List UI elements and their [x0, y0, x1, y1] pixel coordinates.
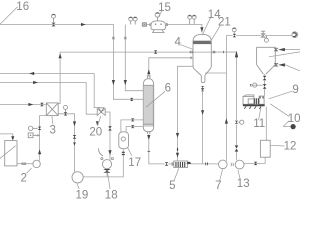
- arrow down on x=113.4: [112, 80, 115, 85]
- wire riser box3 to top line: [58, 52, 236, 104]
- gauge beside riser x236 valve: [240, 120, 244, 124]
- hopper outlet valve 2: [263, 84, 267, 89]
- arrow down on box3 outlet drop x=74.5: [73, 121, 76, 126]
- gauges on pump15 line left: [129, 17, 133, 21]
- svg-text:18: 18: [105, 189, 118, 200]
- pump 15 body: [151, 21, 165, 30]
- svg-text:16: 16: [16, 1, 29, 13]
- wire pump15 line to vessel14: [125, 25, 143, 91]
- leader 10 a: [270, 104, 289, 117]
- svg-text:7: 7: [215, 180, 221, 192]
- hopper feed A valve: [275, 48, 278, 51]
- valve on x=74.5: [73, 135, 77, 139]
- svg-text:9: 9: [292, 84, 298, 96]
- leader 7: [220, 169, 223, 181]
- leader 19: [77, 183, 79, 189]
- coupling box on pump15 line: [142, 23, 146, 27]
- arrow up column6 riser: [147, 69, 150, 74]
- arrow up on riser x=236.5: [235, 51, 238, 58]
- pump 7: [219, 160, 228, 169]
- column 6 shell: [143, 79, 153, 132]
- leader 11: [259, 107, 261, 120]
- wire pump18 bottom to collection line: [106, 173, 108, 177]
- leader 18: [108, 173, 111, 189]
- valves into column left side: [130, 98, 133, 101]
- valve on pump2 riser: [38, 127, 42, 130]
- gauge above pump15: [155, 12, 160, 17]
- pump 18: [102, 160, 111, 169]
- vessel17 bottom flanges: [122, 152, 125, 155]
- small valve on instrument stub: [250, 84, 252, 86]
- pump18 base valve: [103, 169, 111, 173]
- wire box3 right outlet down to pump19: [58, 114, 74, 172]
- arrow down into vessel14 top: [200, 27, 203, 32]
- junction ticks on pump7 suction line: [205, 163, 208, 166]
- svg-text:17: 17: [128, 157, 141, 169]
- control valve on top feed line: [52, 23, 56, 27]
- leader 16: [0, 7, 18, 25]
- gauge top-left control valve: [52, 14, 56, 18]
- machine11 mid hatch: [254, 98, 259, 104]
- svg-text:20: 20: [89, 126, 102, 138]
- flange ticks y52 right of vessel14: [213, 51, 223, 54]
- wire hopper8 feed A: [285, 49, 300, 51]
- small arrow down x=74.5 lower: [73, 142, 76, 145]
- arrow down on valve20 drain: [108, 150, 111, 155]
- svg-text:11: 11: [253, 118, 265, 130]
- valve 20 three-way: [97, 108, 105, 116]
- svg-text:6: 6: [165, 82, 171, 94]
- wire pump10 stub line: [283, 125, 290, 127]
- machine5 dark innards: [175, 162, 185, 167]
- leader 15: [159, 10, 163, 16]
- arrow up main riser x=60: [59, 53, 62, 58]
- machine11 right box marks: [260, 97, 264, 99]
- vessel14 bottom stacked valve: [201, 86, 204, 91]
- leader 8 (label off canvas): [269, 52, 300, 57]
- wire vessel14 lower-left stub down to machine5: [178, 66, 194, 161]
- hopper feed B valve: [275, 64, 278, 67]
- wire vessel17 left nozzle to column: [121, 120, 143, 132]
- leader 17: [128, 148, 132, 156]
- dark details group: [11, 23, 296, 173]
- dashes+arrow above machine5: [177, 148, 178, 151]
- leader 13: [238, 170, 240, 179]
- hopper outlet valve 1: [263, 76, 267, 81]
- wire tank1 feed: [0, 134, 13, 137]
- pump 2: [33, 160, 40, 167]
- svg-text:15: 15: [158, 2, 171, 14]
- arrow down on vessel14 drain: [201, 110, 204, 115]
- wire hopper8 feed B slanted: [285, 65, 300, 71]
- arrow right on y=82.5: [33, 81, 38, 84]
- arrow up pump2 riser: [38, 149, 41, 154]
- wire tank12 top feed from machine11: [265, 107, 267, 141]
- svg-text:13: 13: [237, 178, 250, 190]
- valve on pump10 line x=234: [233, 34, 237, 37]
- valve on riser x236 with gauge: [235, 121, 238, 124]
- leader 1 (cut at left): [0, 146, 16, 159]
- gauge on hopper chain stub: [253, 83, 257, 87]
- svg-text:21: 21: [218, 17, 231, 29]
- column drain flanges: [148, 150, 151, 153]
- wire instrument stub left of hopper chain: [252, 84, 263, 86]
- arrow right on box3 inlet: [28, 103, 33, 106]
- square instrument lower: [28, 133, 33, 138]
- wire machine5 outlet to pump7: [168, 163, 218, 165]
- pump 10 dark circle: [291, 124, 296, 129]
- valve dark on box3 inlet: [40, 103, 44, 106]
- arrow on top feed line: [81, 23, 86, 26]
- arrow down column6 drain: [147, 135, 150, 140]
- wire vessel14 bottom drain down: [202, 91, 204, 164]
- machine5 inlet valve: [165, 162, 169, 166]
- instruments (gauges): [28, 12, 297, 137]
- leader 4: [180, 45, 193, 50]
- gauge above valve x234 on pump10 line: [232, 28, 236, 32]
- wire tank1 to pump2 suction: [17, 163, 33, 165]
- gauge+valve pair beside box3 outlet: [64, 105, 68, 109]
- svg-text:10: 10: [288, 113, 300, 125]
- valve on valve20 drain x=110: [108, 126, 112, 130]
- small dark arrow below valve20: [96, 121, 99, 125]
- gauge below line near x266: [264, 38, 268, 42]
- arrow down into tank1: [11, 136, 14, 140]
- control valve T actuator x263: [261, 31, 265, 37]
- wire top right line to fan10: [236, 35, 292, 37]
- wire hopper8 outlet chain: [264, 74, 266, 96]
- leader 21: [210, 25, 221, 43]
- leader 14: [202, 17, 210, 35]
- hopper 8: [257, 47, 276, 74]
- gauge left of pump2 riser valve: [28, 126, 32, 130]
- fan/pump 10 top right: [292, 32, 298, 38]
- wire box3 inlet: [0, 104, 46, 106]
- svg-text:2: 2: [20, 172, 26, 184]
- leader 2: [26, 168, 31, 173]
- wire riser x236 valve section to pump13: [236, 125, 238, 161]
- leader 6: [146, 91, 165, 107]
- machine11 baseplate: [243, 104, 265, 106]
- hopper feed B arrow: [278, 63, 285, 66]
- breaks on verticals x113/x125: [112, 37, 114, 39]
- pump 13: [235, 160, 244, 169]
- pump 19: [72, 172, 83, 183]
- svg-text:12: 12: [284, 141, 297, 153]
- wire pump13 discharge to tank12: [244, 157, 265, 163]
- wire top feed line y=24.5: [0, 25, 143, 100]
- vessel14 packing band: [193, 41, 211, 44]
- wire vessel14 neck right stub: [205, 72, 226, 74]
- svg-text:19: 19: [76, 189, 89, 200]
- leader 12: [271, 144, 285, 147]
- wire pump7 discharge riser: [226, 36, 232, 161]
- gauges right pair before vessel14: [188, 15, 192, 19]
- tank 12: [260, 140, 270, 157]
- leader 20: [98, 116, 101, 126]
- heat exchanger box 3: [46, 103, 58, 116]
- arrow down on x=177.5: [176, 133, 179, 138]
- wire left pipe B y=82.5: [0, 83, 97, 115]
- valve dark on y=52 main line: [154, 50, 158, 53]
- leader 5: [174, 168, 179, 180]
- tank 1: [5, 141, 17, 166]
- machine 11: [243, 95, 254, 104]
- leader lines: [0, 7, 300, 189]
- wire pump19 discharge collection line to vessel17 bottom: [83, 149, 123, 177]
- svg-text:5: 5: [169, 180, 175, 192]
- wire vessel14 right y=52 to riser x=236.5: [211, 52, 236, 120]
- svg-text:3: 3: [49, 125, 55, 137]
- valve above pump13: [235, 145, 239, 151]
- wire left pipe A y=73.5: [0, 74, 100, 108]
- machine 5 body: [174, 161, 188, 168]
- vessel 14: [193, 34, 211, 69]
- svg-text:4: 4: [174, 36, 181, 48]
- leader 10 b: [283, 121, 289, 127]
- leader 9: [269, 91, 293, 99]
- arrow left on y=73.5: [29, 72, 34, 75]
- hopper feed A arrow: [278, 48, 285, 51]
- wire column6 bottom drain to machine5 line: [149, 134, 165, 164]
- column 6 packing hatch: [144, 86, 153, 127]
- leader 3: [52, 116, 53, 124]
- wire valve20 outlet down to pump18: [105, 112, 110, 160]
- arrow up on pump7 riser: [225, 118, 228, 123]
- flange ticks y52 left of vessel14: [190, 51, 192, 59]
- wire column6 top to vessel14 left nozzle y=57.8: [149, 58, 193, 76]
- valve pump13 discharge: [254, 162, 258, 165]
- wire vessel17 right nozzle to column: [126, 127, 143, 132]
- wire box3 bottom-left to pump2: [40, 116, 47, 161]
- vessel 17: [119, 132, 129, 149]
- arrow down on x=125.3: [124, 80, 127, 85]
